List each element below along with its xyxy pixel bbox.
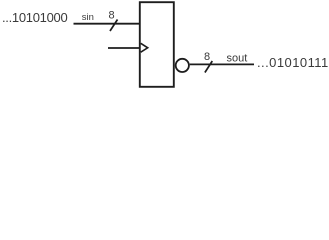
clock triangle on U1 [141, 43, 148, 52]
bus width slash on sout wire [205, 61, 212, 73]
wire sin input [74, 23, 140, 25]
bus width slash on sin wire [110, 20, 118, 32]
svg-text:...10101000: ...10101000 [2, 10, 67, 25]
wire clock input [108, 47, 140, 49]
svg-text:sin: sin [82, 12, 94, 23]
inverter bubble on output [176, 59, 189, 72]
svg-text:8: 8 [204, 51, 210, 63]
svg-text:...01010111: ...01010111 [257, 55, 329, 70]
wire sout output [190, 63, 254, 65]
shift register U1 body [140, 2, 174, 87]
svg-text:8: 8 [109, 10, 115, 22]
svg-text:sout: sout [227, 53, 248, 65]
